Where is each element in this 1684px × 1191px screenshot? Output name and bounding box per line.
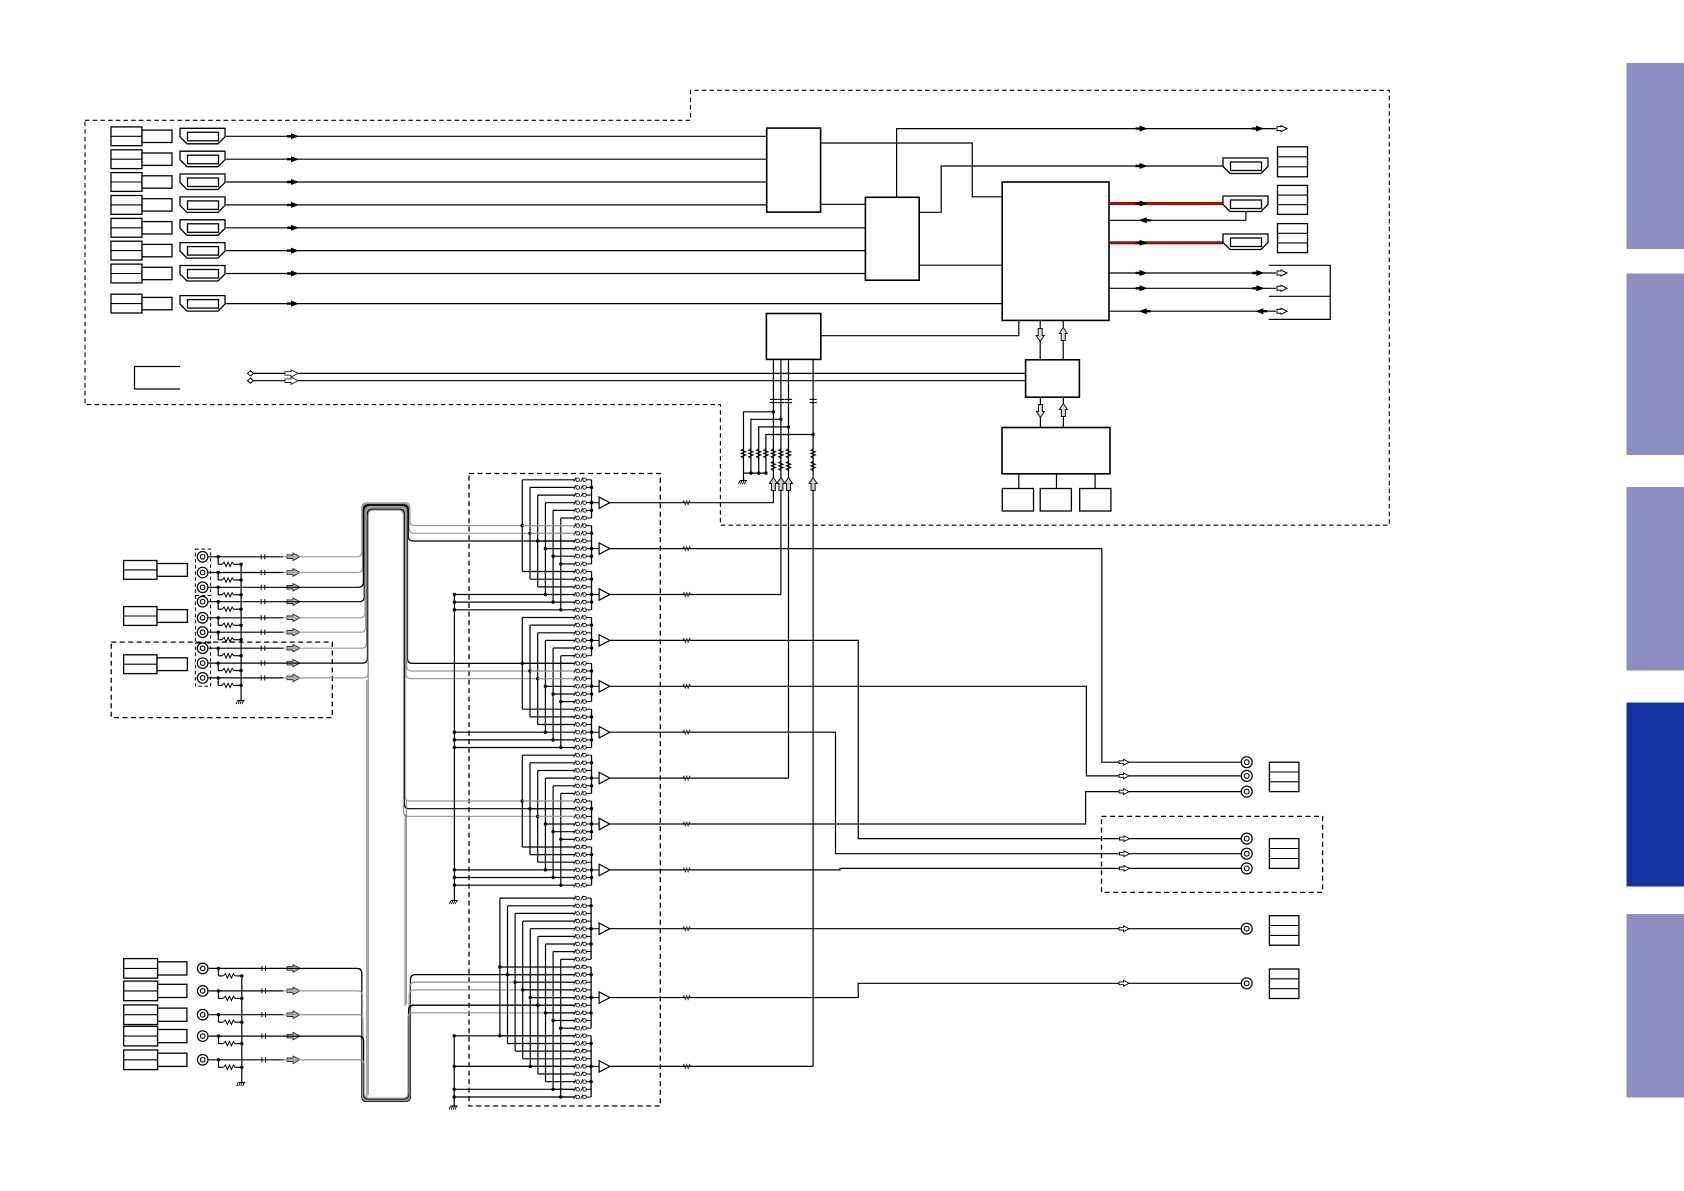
rear panel boxes audio group 1 [124, 959, 158, 979]
wire bus V4 route to matrix [283, 506, 575, 664]
terminal block HDMI out 3 [1278, 224, 1308, 253]
wire U4 out to U3 [821, 320, 1019, 335]
node termination bus [239, 624, 242, 627]
HDMI input connector CN1 [180, 128, 225, 144]
wire HDMI input 4 to receiver IC [226, 204, 767, 206]
wire A3 termination branch [218, 1015, 220, 1023]
wire U3 TMDS out B (red) [1109, 241, 1223, 244]
node A1 termination tap [217, 967, 220, 970]
wire V2 termination branch [217, 573, 219, 581]
RCA input jack A4 [197, 1031, 208, 1042]
matrix row 32 pins [574, 722, 576, 727]
wire RCA V6 to buffer [209, 631, 283, 633]
node termination bus [240, 1066, 243, 1069]
wire A5 termination branch [218, 1060, 220, 1068]
HDMI input jack J3 rear-panel boxes [111, 173, 142, 192]
matrix row 46 wire [551, 830, 554, 833]
wire HDMI input 7 to receiver IC [226, 273, 865, 275]
wire A4 termination branch [218, 1036, 220, 1044]
matrix row 53 ground feed [453, 884, 456, 887]
matrix row 39 wire [545, 777, 574, 779]
RCA input jack A5 [197, 1055, 208, 1066]
sub-block X1 crystal [1018, 474, 1020, 489]
arrow signal up 3 [785, 478, 793, 491]
sub-block X3 crystal [1094, 474, 1096, 489]
matrix row 5 pins [574, 516, 576, 521]
wire buffer4 out to zone2 RCA 1 [610, 640, 1241, 838]
wire RCA V4 to buffer [209, 601, 283, 603]
wire V3 termination branch [217, 587, 219, 595]
wire RCA V8 to buffer [209, 662, 283, 664]
node termination bus [240, 1042, 243, 1045]
wire buffer5 out to monitor RCA 2 [610, 686, 1241, 776]
matrix low row 12 pins [574, 988, 576, 993]
matrix row 30 pins [574, 707, 576, 712]
dashed boundary of lower-left input block [111, 642, 332, 718]
matrix row 4 pins [574, 508, 576, 513]
node termination bus [239, 593, 242, 596]
HDMI input connector CN3 [180, 174, 225, 190]
rear panel boxes audio group 4 [124, 1026, 158, 1046]
wire RCA A1 to buffer [209, 967, 283, 969]
resistor R33 pull-down [757, 449, 761, 460]
matrix low row 0 pins [574, 896, 576, 901]
matrix low row 0 wire [500, 897, 575, 899]
wire U3 CEC line out [1109, 272, 1276, 274]
wire pull-down branch 1 [744, 412, 774, 473]
matrix low row 14 wire [536, 1004, 539, 1007]
resistor R42 termination [222, 578, 235, 582]
matrix supergroup 1 fan-out verticals [521, 480, 523, 572]
wire pull-down branch 3 [759, 427, 789, 473]
node tap 1 [772, 410, 775, 413]
matrix row 16 pins [574, 600, 576, 605]
RCA zone2 out jack 1 [1241, 833, 1252, 844]
matrix row 19 pins [574, 623, 576, 628]
resistor R46 termination [222, 638, 235, 642]
wire RCA V5 to buffer [209, 617, 283, 619]
matrix row 11 wire [559, 562, 562, 565]
resistor R49 termination [222, 683, 235, 687]
matrix low row 7 wire [553, 951, 574, 953]
wire video up-convert path 2 (U4 to buffer) [780, 359, 782, 594]
wire U3 DDC line out [1109, 287, 1276, 289]
wire bus V7 route to matrix [283, 508, 575, 801]
resistor R55 termination [223, 1065, 236, 1069]
RCA input jack V8 [197, 658, 208, 669]
wire A1 termination branch [218, 968, 220, 976]
matrix low row 26 pins [574, 1095, 576, 1100]
wire ground stub [743, 473, 745, 480]
matrix row 2 pins [574, 493, 576, 498]
matrix row 15 pins [574, 592, 576, 597]
matrix subgroup bus 2.2 [591, 663, 593, 701]
matrix row 45 pins [574, 822, 576, 827]
matrix low row 9 pins [574, 965, 576, 970]
node termination bus [239, 654, 242, 657]
wire RCA V2 to buffer [209, 572, 283, 574]
matrix row 2 wire [538, 494, 575, 496]
matrix row 23 wire [561, 655, 575, 657]
resistor R14 series [811, 449, 815, 460]
matrix row 33 pins [574, 730, 576, 735]
node V2 termination tap [217, 571, 220, 574]
arrow signal up 2 [777, 478, 785, 491]
node A3 termination tap [217, 1013, 220, 1016]
wire bus A1 route to matrix [283, 968, 575, 1101]
wire RCA A2 to buffer [209, 990, 283, 992]
matrix row 50 pins [574, 860, 576, 865]
terminal block aux out 1 [1269, 916, 1299, 946]
matrix row 53 pins [574, 883, 576, 888]
wire buffer7 out to up-path 3 [610, 777, 789, 779]
node termination bus [239, 669, 242, 672]
matrix low row 11 pins [574, 980, 576, 985]
wire bus A4 route to matrix [283, 1005, 575, 1099]
rear panel boxes audio group 5 [124, 1050, 158, 1070]
wire HDMI input 2 to receiver IC [226, 158, 767, 160]
matrix low row 5 wire [538, 935, 575, 937]
matrix row 34 pins [574, 738, 576, 743]
matrix subgroup bus 1.3 [591, 572, 593, 610]
buffer amp B8 [592, 823, 600, 825]
node termination bus [239, 638, 242, 641]
HDMI output connector CN11 [1223, 234, 1268, 250]
wire sync B to U5 [253, 380, 1026, 382]
matrix low row 21 pins [574, 1056, 576, 1061]
buffer amp B11 [591, 997, 599, 999]
wire sync A to U5 [253, 372, 1026, 374]
buffer amp B4 [592, 639, 600, 641]
matrix row 25 node [528, 669, 531, 672]
RCA input jack V1 [197, 552, 208, 563]
arrow signal up 1 [769, 478, 777, 491]
matrix low row 5 pins [574, 934, 576, 939]
matrix row 49 pins [574, 852, 576, 857]
matrix row 27 wire [544, 685, 547, 688]
node termination bus [240, 997, 243, 1000]
matrix row 6 pins [574, 523, 576, 528]
matrix low row 26 wire [561, 1096, 575, 1098]
RCA input jack V7 [197, 643, 208, 654]
wire termination bus to ground [240, 564, 242, 700]
buffer amp B5 [592, 685, 600, 687]
matrix row 48 wire [522, 846, 574, 848]
matrix low row 11 wire [513, 981, 516, 984]
matrix row 44 node [536, 815, 539, 818]
HDMI input connector CN8 [180, 296, 225, 312]
matrix low row 4 wire [530, 928, 574, 930]
matrix row 23 pins [574, 653, 576, 658]
matrix row 6 node [521, 524, 524, 527]
matrix subgroup bus 3.1 [591, 755, 593, 793]
ground [451, 1105, 458, 1107]
matrix row 32 wire [538, 724, 575, 726]
wire bus V2 route to matrix [283, 504, 575, 573]
wire bus A3 route to matrix [283, 990, 575, 1100]
wire V8 termination branch [217, 663, 219, 671]
matrix row 38 pins [574, 768, 576, 773]
matrix row 43 node [528, 807, 531, 810]
wire buffer11 out to aux RCA 2 [610, 983, 1241, 997]
bus U3 to U5 down [1039, 320, 1041, 359]
buffer amp B7 [592, 777, 600, 779]
buffer amp B2 [592, 548, 600, 550]
buffer amp B10 [591, 928, 599, 930]
resistor R21 series [771, 461, 775, 472]
matrix low row 2 wire [515, 912, 574, 914]
wire termination bus to ground (bottom) [241, 976, 243, 1082]
matrix row 1 pins [574, 485, 576, 490]
matrix subgroup bus 2.3 [591, 709, 593, 747]
wire buffer9 out to zone2 RCA 3 [610, 868, 1241, 870]
wire A2 termination branch [218, 991, 220, 999]
resistor R32 pull-down [749, 449, 753, 460]
node V4 termination tap [217, 600, 220, 603]
matrix row 10 pins [574, 554, 576, 559]
matrix low row 16 wire [551, 1019, 554, 1022]
matrix low row 13 wire [529, 996, 532, 999]
matrix row 45 wire [544, 822, 547, 825]
matrix row 49 wire [530, 854, 575, 856]
node ground bus [749, 471, 752, 474]
node V8 termination tap [217, 661, 220, 664]
matrix row 13 pins [574, 577, 576, 582]
matrix row 52 pins [574, 875, 576, 880]
matrix low row 10 wire [506, 973, 509, 976]
matrix row 12 wire [522, 571, 574, 573]
matrix row 37 pins [574, 760, 576, 765]
matrix row 24 node [521, 662, 524, 665]
wire HDMI out 2 hot-plug return [1109, 211, 1246, 220]
sync input stub component [135, 367, 181, 390]
wire ground bus of pull-downs [744, 472, 766, 474]
matrix row 20 pins [574, 630, 576, 635]
HDMI input jack J6 rear-panel boxes [111, 241, 142, 260]
wire bus A5 route to matrix [283, 1013, 575, 1098]
wire bus V8 route to matrix [283, 509, 575, 809]
ground [238, 700, 245, 702]
resistor R51 termination [223, 974, 236, 978]
RCA aux out jack 2 [1241, 978, 1252, 989]
block U6 system microcontroller [1002, 428, 1110, 474]
matrix row 27 pins [574, 684, 576, 689]
matrix row 18 pins [574, 615, 576, 620]
HDMI input jack J1 rear-panel boxes [111, 127, 142, 146]
node ground bus [764, 471, 767, 474]
page side tab 5 [1627, 914, 1684, 1098]
matrix low row 3 pins [574, 919, 576, 924]
matrix low row 20 pins [574, 1049, 576, 1054]
matrix shield line lower [453, 1036, 455, 1106]
block U2 HDMI receiver B [865, 197, 919, 280]
node termination bus [240, 1021, 243, 1024]
wire RCA A4 to buffer [209, 1035, 283, 1037]
buffer amp B6 [592, 731, 600, 733]
matrix row 29 pins [574, 699, 576, 704]
matrix lower fan-out verticals [499, 898, 501, 1036]
wire V7 termination branch [217, 648, 219, 656]
wire RCA A5 to buffer [209, 1059, 283, 1061]
matrix row 21 pins [574, 638, 576, 643]
RCA input jack V3 [197, 582, 208, 593]
buffer amp B3 [592, 594, 600, 596]
matrix low row 18 pins [574, 1033, 576, 1038]
resistor R13 series [786, 449, 790, 460]
matrix row 41 wire [561, 792, 575, 794]
wire bundle continuity left B [367, 662, 369, 1095]
wire pull-down branch 2 [751, 419, 781, 473]
matrix row 19 wire [530, 624, 575, 626]
matrix row 21 wire [545, 639, 574, 641]
wire HDMI input 6 to receiver IC [226, 250, 865, 252]
matrix row 51 ground feed [453, 868, 456, 871]
wire bus V6 route to matrix [283, 507, 575, 678]
HDMI output connector CN10 [1223, 196, 1268, 212]
wire U1 out to U2 in [821, 203, 866, 205]
node tap 2 [779, 418, 782, 421]
wire pull-down branch 4 [766, 435, 813, 474]
wire buffer3 out to up-path 2 [610, 594, 781, 596]
resistor R44 termination [222, 607, 235, 611]
terminal block aux out 2 [1269, 969, 1299, 999]
matrix shield line upper [453, 595, 455, 901]
matrix row 41 pins [574, 791, 576, 796]
wire buffer6 out to zone2 RCA 2 [610, 732, 1241, 854]
terminal block zone2 out [1269, 839, 1299, 869]
wire buffer1 out to up-path 1 [610, 502, 774, 504]
wire U2 out to HDMI monitor out 1 [919, 166, 1223, 212]
buffer amp B9 [592, 869, 600, 871]
resistor R53 termination [223, 1020, 236, 1024]
node V5 termination tap [217, 616, 220, 619]
dashed boundary around composite input jack column [195, 549, 210, 595]
matrix row 7 pins [574, 531, 576, 536]
node A2 termination tap [217, 989, 220, 992]
wire RCA A3 to buffer [209, 1014, 283, 1016]
matrix row 17 ground feed [453, 608, 456, 611]
HDMI input connector CN4 [180, 197, 225, 213]
matrix row 20 wire [538, 632, 575, 634]
matrix row 33 ground feed [453, 731, 456, 734]
wire U3 HPD line in [1109, 310, 1276, 312]
matrix low row 25 pins [574, 1087, 576, 1092]
matrix row 22 pins [574, 646, 576, 651]
resistor R23 series [786, 461, 790, 472]
resistor R11 series [771, 449, 775, 460]
wire RCA V1 to buffer [209, 556, 283, 558]
RCA zone2 out jack 2 [1241, 848, 1252, 859]
rear panel boxes audio group 3 [124, 1005, 158, 1025]
matrix low row 9 wire [498, 965, 501, 968]
ground [740, 480, 747, 482]
page side tab 4 (current chapter) [1627, 703, 1684, 887]
matrix low row 6 pins [574, 942, 576, 947]
matrix row 16 ground feed [453, 600, 456, 603]
node V3 termination tap [217, 586, 220, 589]
matrix row 44 pins [574, 814, 576, 819]
wire HDMI input 8 to receiver IC [226, 303, 1002, 305]
matrix low row 23 pins [574, 1072, 576, 1077]
page side tab 2 [1627, 274, 1684, 456]
matrix row 17 pins [574, 607, 576, 612]
terminal block HDMI out 2 [1278, 185, 1308, 214]
HDMI input connector CN6 [180, 243, 225, 259]
RCA input jack V5 [197, 613, 208, 624]
matrix row 9 pins [574, 546, 576, 551]
HDMI input jack J7 rear-panel boxes [111, 264, 142, 283]
matrix subgroup bus 3.3 [591, 847, 593, 885]
node termination bus [239, 563, 242, 566]
matrix row 25 pins [574, 669, 576, 674]
wire HDMI input 1 to receiver IC [226, 135, 767, 137]
matrix low row 19 pins [574, 1041, 576, 1046]
HDMI input connector CN2 [180, 151, 225, 167]
arrow signal up 4 [809, 478, 817, 491]
RCA input jack A2 [197, 986, 208, 997]
wire bus A2 route to matrix [283, 982, 575, 1100]
matrix row 50 wire [538, 861, 575, 863]
matrix row 52 ground feed [453, 876, 456, 879]
block U4 video processor [766, 314, 820, 360]
dashed boundary of video switch matrix block (center) [469, 474, 660, 1107]
matrix subgroup bus 3.2 [591, 801, 593, 839]
wire bus V5 route to matrix [283, 507, 575, 672]
RCA monitor out jack 1 [1241, 757, 1252, 768]
RCA input jack V9 [197, 673, 208, 684]
matrix row 40 wire [553, 785, 574, 787]
matrix row 28 wire [551, 692, 554, 695]
bus U5 to U6 down [1039, 397, 1041, 427]
wire bus V1 route to matrix [283, 503, 575, 557]
matrix low row 17 wire [559, 1027, 562, 1030]
node V6 termination tap [217, 631, 220, 634]
wire bundle continuity right A [404, 814, 406, 1006]
wire V9 termination branch [217, 678, 219, 686]
matrix row 28 pins [574, 692, 576, 697]
matrix row 40 pins [574, 783, 576, 788]
bus U6 to U5 up [1062, 397, 1064, 427]
matrix row 39 pins [574, 776, 576, 781]
RCA monitor out jack 3 [1241, 786, 1252, 797]
matrix row 26 pins [574, 676, 576, 681]
HDMI input jack J5 rear-panel boxes [111, 218, 142, 237]
resistor R31 pull-down [741, 449, 745, 460]
matrix low row 19 wire [508, 1043, 575, 1045]
wire HDMI input 5 to receiver IC [226, 227, 865, 229]
matrix low row 25 wire [553, 1088, 574, 1090]
matrix row 0 wire [522, 479, 574, 481]
matrix low row 4 pins [574, 926, 576, 931]
wire bundle continuity left A [366, 680, 368, 1097]
RCA monitor out jack 2 [1241, 770, 1252, 781]
wire U1 out to U3 in [821, 143, 1003, 197]
matrix low row 12 wire [521, 988, 524, 991]
matrix subgroup bus 1.1 [591, 480, 593, 518]
node termination bus [240, 974, 243, 977]
rear panel boxes composite group 2 [124, 607, 157, 626]
RCA input jack V2 [197, 567, 208, 578]
wire video up-convert path 4 (U4 to buffer) [812, 359, 814, 1066]
matrix low row 7 pins [574, 949, 576, 954]
node tap 4 [811, 433, 814, 436]
resistor R22 series [779, 461, 783, 472]
matrix low subgroup bus 3 [590, 1036, 592, 1097]
matrix low subgroup bus 2 [590, 967, 592, 1028]
matrix row 37 wire [530, 762, 575, 764]
node ground bus [757, 471, 760, 474]
block U5 HDMI controller [1026, 360, 1080, 397]
